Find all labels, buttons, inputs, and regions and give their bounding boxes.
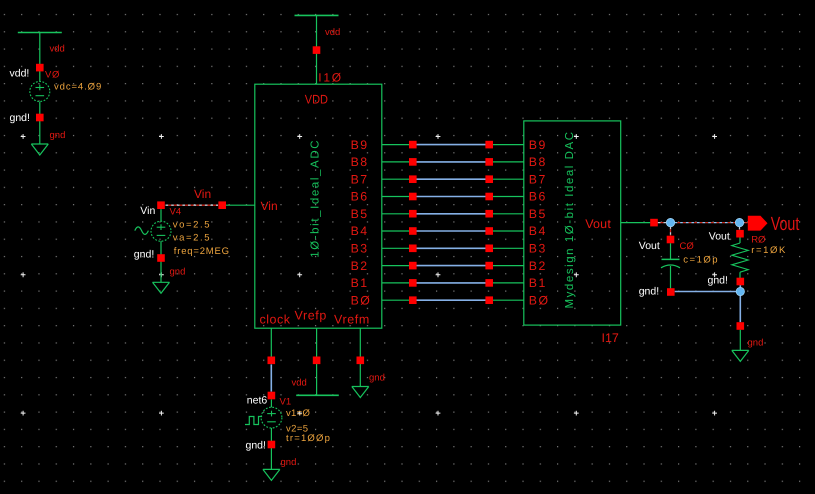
svg-text:gnd: gnd: [369, 372, 385, 383]
svg-text:clock: clock: [260, 312, 291, 326]
svg-text:c=1Øp: c=1Øp: [683, 254, 719, 265]
svg-text:Vin: Vin: [261, 199, 278, 213]
svg-text:B2: B2: [351, 259, 369, 273]
svg-text:vo=2.5: vo=2.5: [173, 220, 211, 231]
svg-text:va=2.5: va=2.5: [173, 233, 211, 244]
svg-text:Vout: Vout: [771, 214, 800, 235]
svg-text:B9: B9: [529, 138, 547, 152]
svg-text:r=1ØK: r=1ØK: [751, 245, 787, 256]
svg-text:gnd!: gnd!: [708, 274, 728, 286]
svg-text:B9: B9: [351, 138, 369, 152]
svg-text:B4: B4: [529, 224, 547, 238]
svg-text:RØ: RØ: [751, 234, 766, 245]
svg-text:tr=1ØØp: tr=1ØØp: [286, 433, 331, 444]
svg-text:B3: B3: [529, 242, 547, 256]
svg-text:I1Ø: I1Ø: [318, 70, 343, 84]
svg-text:BØ: BØ: [351, 293, 372, 307]
svg-text:gnd!: gnd!: [134, 249, 154, 261]
svg-text:B6: B6: [529, 190, 547, 204]
svg-text:V1: V1: [280, 396, 292, 407]
svg-text:gnd: gnd: [281, 457, 297, 468]
svg-text:freq=2MEG: freq=2MEG: [174, 246, 230, 257]
svg-text:gnd!: gnd!: [246, 440, 266, 452]
svg-text:BØ: BØ: [529, 293, 550, 307]
svg-text:gnd!: gnd!: [639, 286, 659, 298]
svg-text:vdc=4.Ø9: vdc=4.Ø9: [54, 82, 102, 93]
svg-text:I17: I17: [602, 331, 619, 345]
svg-text:Vrefp: Vrefp: [295, 309, 327, 323]
svg-text:B2: B2: [529, 259, 547, 273]
svg-text:net6: net6: [247, 394, 268, 406]
svg-text:Vout: Vout: [585, 217, 611, 231]
svg-text:B5: B5: [351, 207, 369, 221]
svg-text:Vin: Vin: [194, 187, 211, 201]
svg-text:Vin: Vin: [140, 205, 155, 217]
svg-text:1Ø-bit_Ideal_ADC: 1Ø-bit_Ideal_ADC: [309, 139, 321, 258]
svg-text:B7: B7: [351, 172, 369, 186]
svg-text:B3: B3: [351, 242, 369, 256]
svg-text:B4: B4: [351, 224, 369, 238]
svg-text:B5: B5: [529, 207, 547, 221]
svg-text:B1: B1: [351, 276, 369, 290]
svg-text:vdd: vdd: [325, 27, 340, 38]
svg-text:B6: B6: [351, 190, 369, 204]
svg-text:B7: B7: [529, 172, 547, 186]
svg-text:Vrefm: Vrefm: [334, 312, 370, 326]
svg-text:vdd: vdd: [50, 44, 65, 55]
svg-text:Vout: Vout: [709, 231, 730, 243]
svg-text:v1=Ø: v1=Ø: [286, 408, 310, 419]
svg-text:Mydesign 1Ø-bit Ideal DAC: Mydesign 1Ø-bit Ideal DAC: [564, 130, 576, 308]
svg-text:vdd: vdd: [292, 378, 307, 389]
svg-text:gnd!: gnd!: [10, 112, 30, 124]
svg-text:CØ: CØ: [680, 241, 695, 252]
svg-text:B1: B1: [529, 276, 547, 290]
svg-text:V4: V4: [170, 207, 182, 218]
svg-text:vdd!: vdd!: [10, 68, 30, 80]
svg-text:Vout: Vout: [639, 240, 660, 252]
svg-text:VØ: VØ: [45, 70, 60, 81]
svg-text:VDD: VDD: [305, 92, 328, 106]
svg-text:B8: B8: [351, 155, 369, 169]
svg-text:B8: B8: [529, 155, 547, 169]
svg-text:gnd: gnd: [50, 130, 66, 141]
svg-text:gnd: gnd: [170, 267, 186, 278]
svg-text:gnd: gnd: [748, 338, 764, 349]
